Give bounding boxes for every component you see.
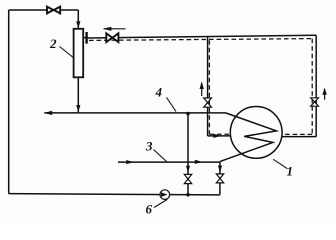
svg-text:2: 2 bbox=[49, 36, 57, 51]
wire left vertical bbox=[8, 10, 10, 194]
wire dashed left branch horizontal bbox=[209, 133, 229, 135]
wire top solid line vessel to right bbox=[88, 35, 317, 38]
valve V1 top-left (bowtie) bbox=[47, 7, 60, 14]
label 6 pointer bbox=[154, 199, 167, 207]
heat exchanger U1 (circle 1) bbox=[230, 106, 282, 158]
wire right solid vertical bbox=[315, 35, 317, 136]
valve V4 at x188 (outlined) bbox=[184, 174, 191, 183]
wire recirculation line (node 4 line) bbox=[44, 112, 226, 114]
svg-text:1: 1 bbox=[287, 164, 294, 179]
pump 6 bbox=[160, 190, 170, 200]
arrow left at end of line 4 bbox=[44, 111, 52, 115]
arrow right on line 3 (first) bbox=[126, 160, 134, 164]
wire top-left horizontal bbox=[9, 9, 79, 11]
wire bottom-right solid to exchanger bbox=[282, 136, 317, 138]
valve V5 at x220 (outlined) bbox=[216, 174, 223, 183]
valve V3 on left branch (outlined) bbox=[204, 98, 212, 107]
label 3 pointer bbox=[154, 150, 168, 163]
svg-text:6: 6 bbox=[146, 202, 153, 217]
label 2 pointer bbox=[60, 47, 74, 58]
wire vessel inlet drop bbox=[77, 10, 79, 29]
node junction dot on line 4 bbox=[186, 112, 190, 116]
vessel 2 bbox=[74, 29, 84, 78]
wire feed line 3 bbox=[118, 161, 220, 163]
wire left branch into exchanger bbox=[208, 135, 231, 137]
wire bottom horizontal bbox=[9, 194, 220, 195]
arrow left above valve V2 bbox=[103, 27, 126, 31]
arrow up beside valve V3 bbox=[200, 82, 204, 97]
wire vessel nozzle stub bbox=[83, 37, 86, 39]
valve V6 on right vertical (outlined) bbox=[311, 98, 319, 106]
arrow right into exchanger left side bbox=[213, 134, 220, 138]
arrow down at vessel outlet bbox=[76, 105, 80, 112]
coil zigzag inside exchanger bbox=[220, 113, 277, 162]
flange on vessel nozzle bbox=[85, 32, 87, 44]
svg-text:3: 3 bbox=[145, 139, 153, 154]
wire dashed left branch vertical bbox=[208, 40, 210, 134]
label 4 pointer bbox=[167, 98, 177, 112]
valve V2 near vessel (bowtie) bbox=[106, 33, 118, 42]
label 1 pointer bbox=[273, 159, 287, 169]
arrow down above valve V4 bbox=[186, 166, 190, 173]
wire dashed bottom-right bbox=[284, 133, 312, 135]
wire vessel outlet bbox=[77, 77, 79, 112]
wire dashed right vertical bbox=[311, 39, 313, 135]
node junction dot on bottom line bbox=[186, 193, 190, 197]
wire drop from node to valve at x220 bbox=[219, 162, 221, 195]
wire dashed top line bbox=[89, 39, 312, 41]
arrow right on line 3 (second) bbox=[195, 160, 203, 164]
wire vertical through node at x188 bbox=[187, 114, 189, 195]
arrow down into vessel bbox=[76, 21, 80, 28]
arrow down above valve V5 bbox=[218, 166, 222, 173]
wire left branch drop from top line bbox=[207, 37, 209, 136]
arrow up beside valve V6 bbox=[322, 88, 326, 100]
svg-text:4: 4 bbox=[155, 85, 163, 100]
